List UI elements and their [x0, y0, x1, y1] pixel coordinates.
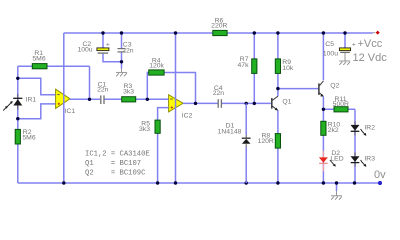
svg-text:12 Vdc: 12 Vdc [353, 52, 388, 64]
resistor R8 [258, 133, 281, 149]
resistor R3 [122, 83, 136, 102]
svg-text:100u: 100u [323, 51, 338, 58]
junction dot IC2 inverting node [146, 98, 149, 101]
wire Q1 emitter to R8 to 0V [277, 110, 279, 183]
resistor R10 [321, 121, 341, 135]
svg-text:Q1 = BC107: Q1 = BC107 [85, 160, 141, 168]
svg-text:Q2: Q2 [330, 83, 339, 90]
svg-text:+Vcc: +Vcc [358, 38, 383, 50]
svg-text:10k: 10k [282, 65, 294, 72]
junction dots IC2 output line [194, 102, 256, 105]
wire R10 D2 branch [322, 109, 324, 183]
junction dots top rail [101, 31, 346, 34]
svg-text:120R: 120R [258, 138, 274, 145]
resistor R11 [333, 96, 349, 112]
svg-text:120k: 120k [149, 63, 164, 70]
resistor R6 [211, 17, 227, 35]
wire R9 branch vertical [277, 33, 279, 89]
wire C3 branch top [121, 33, 123, 48]
svg-text:2k2: 2k2 [328, 127, 339, 134]
svg-text:Q1: Q1 [282, 98, 291, 105]
wire D1 branch vertical [245, 103, 247, 134]
wire IR2 IR3 branch vertical [354, 109, 356, 183]
parts list text [85, 151, 150, 178]
wire Q2 collector from Vcc [322, 33, 324, 80]
junction dot C2 C3 ground node [120, 60, 123, 63]
wire IR1 to IC1 non-inverting input [18, 104, 56, 119]
svg-text:220R: 220R [211, 23, 227, 30]
wire R11 horizontal [323, 108, 355, 110]
capacitor C1 [97, 82, 109, 105]
wire Q2 emitter down [322, 97, 324, 110]
wire R1 feedback horizontal [18, 65, 90, 67]
wire R1 to IC1 output [89, 66, 91, 99]
svg-text:LED: LED [330, 155, 343, 162]
svg-text:500R: 500R [333, 101, 349, 108]
svg-text:IR1: IR1 [26, 96, 37, 103]
wire IC1 output to C1 [70, 98, 100, 100]
0V terminal [374, 169, 386, 185]
svg-text:IC1: IC1 [65, 108, 76, 115]
capacitor C3 [118, 42, 134, 55]
svg-text:IR2: IR2 [364, 124, 375, 131]
wire C4 to Q1 base [222, 102, 271, 104]
+Vcc terminal [353, 31, 388, 64]
wire R7 branch vertical [253, 33, 255, 103]
IR LED IR3 [351, 153, 376, 167]
wire IC1 supply vertical [63, 33, 65, 183]
wire C2 branch top [102, 33, 104, 48]
svg-text:+: + [106, 42, 110, 49]
svg-text:22n: 22n [213, 90, 225, 97]
junction dot Q2 emitter node [322, 108, 325, 111]
diode D1 [218, 123, 251, 148]
svg-text:22n: 22n [97, 86, 109, 93]
wire 0V bottom rail [18, 182, 380, 184]
ground below C3 [116, 69, 127, 77]
wire IC2 supply vertical [175, 33, 177, 183]
junction dots bottom rail [62, 181, 356, 184]
svg-text:47k: 47k [238, 62, 250, 69]
svg-text:100u: 100u [77, 47, 92, 54]
ground below C5 [339, 53, 350, 65]
wire Q1 collector node to Q2 base [278, 88, 319, 90]
IR LED IR2 [351, 121, 376, 136]
resistor R4 [149, 57, 165, 75]
svg-text:IC2: IC2 [182, 113, 193, 120]
wire Vcc top rail [64, 32, 373, 34]
svg-text:IC1,2 = CA3140E: IC1,2 = CA3140E [85, 151, 150, 159]
svg-text:1N4148: 1N4148 [218, 129, 242, 136]
junction dot Q1 collector node [276, 87, 279, 90]
svg-text:22n: 22n [122, 47, 134, 54]
resistor R5 [139, 120, 160, 133]
wire C2 bottom to C3 node [103, 54, 122, 62]
junction dot IC1 output node [88, 98, 91, 101]
transistor Q2 [319, 81, 340, 97]
resistor R7 [238, 56, 257, 73]
op-amp IC2 [169, 95, 193, 120]
svg-text:Q2 = BC109C: Q2 = BC109C [85, 170, 146, 178]
svg-text:5M6: 5M6 [22, 135, 35, 142]
wire C3 bottom to ground node [121, 52, 123, 68]
wire C5 branch top [344, 33, 346, 48]
LED D2 [319, 150, 344, 171]
ground below 0V rail [331, 191, 342, 200]
op-amp IC1 [56, 89, 76, 115]
svg-text:0v: 0v [374, 169, 386, 181]
wire R5 to IC2 non-inverting input [158, 108, 169, 183]
resistor R9 [275, 59, 294, 74]
svg-text:3k3: 3k3 [123, 88, 134, 95]
capacitor C4 [213, 85, 225, 108]
svg-text:5M6: 5M6 [32, 56, 45, 63]
wire R4 feedback loop [147, 73, 195, 104]
wire left branch vertical [17, 66, 19, 183]
resistor R2 [15, 129, 36, 144]
svg-text:+: + [352, 42, 356, 49]
photodiode IR1 [3, 94, 36, 110]
wire IC2 output to C4 [183, 102, 218, 104]
transistor Q1 [272, 96, 292, 110]
wire ground stub below bottom rail [336, 183, 338, 191]
svg-text:C5: C5 [325, 41, 334, 48]
resistor R1 [32, 50, 47, 69]
wire C1 to IC2 inverting input [104, 98, 168, 100]
capacitor C2 [77, 41, 109, 53]
svg-text:IR3: IR3 [364, 155, 375, 162]
wire Q1 collector [277, 89, 279, 97]
junction dots left branch [16, 77, 19, 121]
capacitor C5 [323, 41, 356, 58]
wire IR1 to IC1 inverting input [18, 78, 56, 95]
svg-text:3k3: 3k3 [139, 126, 150, 133]
